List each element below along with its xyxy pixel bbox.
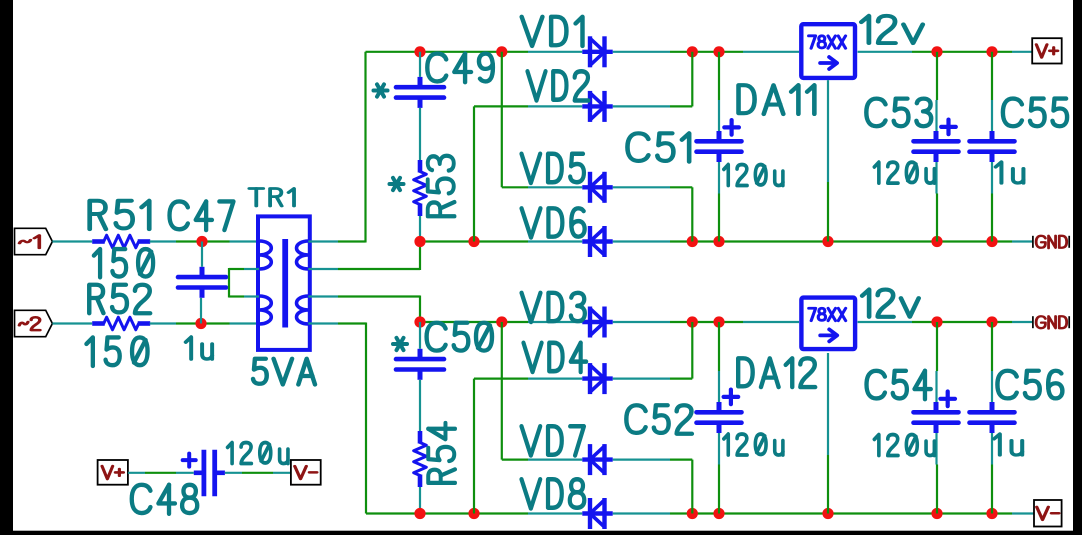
label VD7 — [522, 426, 584, 455]
star mark C49 — [374, 89, 388, 93]
label R53 — [428, 156, 455, 217]
junction dots rail2 — [414, 316, 425, 327]
wire mid rail — [420, 240, 528, 242]
label C51 — [627, 133, 689, 161]
resistor R54 — [418, 431, 423, 444]
label C53 — [866, 99, 931, 127]
wire R51 to TR1 pin1 — [150, 240, 176, 242]
wire C56 leads — [991, 322, 993, 371]
label VD1 — [522, 17, 583, 46]
port V- of C48 — [291, 460, 321, 485]
junction dots mid rail — [414, 236, 425, 247]
diode VD6 — [582, 239, 612, 243]
polarity mark C52 — [724, 395, 739, 399]
wire VD5 branch — [501, 52, 503, 188]
capacitor C53 — [914, 139, 959, 144]
port GND right upper — [1032, 236, 1034, 248]
diode VD1 — [582, 50, 612, 54]
value 150 of R52 — [86, 337, 147, 366]
label C50 — [427, 323, 492, 351]
wire TR1 pin4 to top rail — [308, 240, 338, 242]
value 1u of C55 — [996, 162, 1024, 183]
value 1u of C47 — [186, 337, 212, 359]
label DA11 — [739, 85, 815, 114]
diode VD4 — [582, 376, 612, 380]
label R51 — [90, 201, 150, 229]
wire C54 leads — [936, 322, 938, 371]
label 12v top — [861, 16, 922, 43]
label 12v bottom — [862, 290, 919, 317]
wire TR1 pin7 to bottom rail — [308, 322, 338, 324]
port ~1 — [15, 228, 53, 254]
label C54 — [867, 371, 931, 399]
transformer TR1 — [258, 216, 310, 350]
label R54 — [428, 423, 455, 483]
label R52 — [89, 285, 150, 313]
wire ~2 to R52 — [52, 322, 92, 324]
label VD8 — [522, 479, 585, 508]
wire DA11 ground pin — [827, 80, 829, 182]
polarity mark C48 — [183, 458, 196, 462]
wire C49-R53 chain — [419, 52, 421, 77]
value 120u of C52 — [724, 434, 783, 455]
resistor R51 — [92, 239, 105, 244]
wire TR1 pin5 to node R53 — [308, 268, 338, 270]
junction dots bottom rail — [414, 508, 425, 519]
wire VD4 branch — [474, 378, 528, 380]
capacitor C49 — [396, 85, 444, 90]
label VD5 — [522, 154, 584, 183]
wire VD2 branch — [474, 105, 528, 107]
capacitor C47 — [178, 275, 226, 280]
wire R52 to TR1 pin2 — [150, 322, 176, 324]
label VD6 — [522, 208, 585, 237]
diode VD8 — [582, 511, 612, 515]
label C56 — [997, 371, 1062, 399]
diode VD3 — [582, 320, 612, 324]
value 150 of R51 — [94, 249, 153, 277]
label C47 — [170, 201, 234, 230]
label VD2 — [527, 71, 588, 100]
wire C51 leads — [718, 52, 720, 100]
border frame — [0, 0, 13, 535]
junction node A (C47 top) — [196, 236, 207, 247]
value 1u of C56 — [994, 434, 1022, 455]
label DA12 — [738, 358, 815, 387]
capacitor C48 — [194, 470, 202, 475]
wire bottom rail — [366, 512, 528, 514]
star mark C50 — [393, 342, 407, 346]
junction node B (C47 bottom) — [195, 318, 206, 329]
capacitor C56 — [970, 410, 1015, 415]
polarity mark C54 — [940, 397, 955, 401]
wire C52 leads — [718, 322, 720, 371]
wire ~1 to R51 — [52, 240, 92, 242]
value 120u of C51 — [724, 165, 783, 186]
capacitor C50 — [396, 357, 444, 362]
wire TR1 pins 2-3 tie — [244, 268, 259, 270]
label C55 — [1003, 99, 1067, 127]
port GND right lower — [1032, 316, 1034, 328]
wire C53 leads — [936, 52, 938, 100]
wire C47 leads — [201, 242, 203, 267]
port ~2 — [15, 310, 53, 336]
value 120u of C54 — [874, 435, 934, 456]
wire V+ to C48 — [128, 472, 145, 474]
wire rail2 — [420, 321, 528, 323]
label TR1 — [249, 188, 294, 206]
label C52 — [626, 405, 692, 433]
capacitor C54 — [914, 410, 959, 415]
wire TR1 pin6 to node R54 — [308, 295, 338, 297]
label VD4 — [523, 343, 586, 372]
polarity mark C51 — [724, 125, 739, 129]
capacitor C51 — [697, 139, 742, 144]
wire C50-R54 chain — [419, 322, 421, 349]
label VD3 — [522, 293, 585, 322]
port V+ of C48 — [98, 460, 128, 485]
resistor R53 — [418, 160, 423, 173]
wire C55 leads — [991, 52, 993, 100]
junction dots top rail — [414, 46, 425, 57]
capacitor C55 — [970, 139, 1015, 144]
polarity mark C53 — [941, 125, 956, 129]
regulator U DA12 78XX box — [801, 298, 855, 350]
wire C48 to V- — [225, 472, 242, 474]
value 5VA of TR1 — [253, 359, 315, 385]
capacitor C52 — [697, 410, 742, 415]
regulator U DA11 78XX box — [801, 24, 855, 78]
diode VD5 — [582, 185, 612, 189]
diode VD7 — [582, 457, 612, 461]
label C49 — [427, 54, 493, 83]
value 120u of C53 — [874, 162, 934, 183]
port V- right — [1034, 500, 1062, 527]
wire VD7 branch — [501, 322, 503, 460]
diode VD2 — [582, 104, 612, 108]
label C48 — [132, 485, 197, 514]
value 120u of C48 — [228, 443, 288, 464]
star mark R53 — [390, 182, 404, 186]
resistor R52 — [92, 321, 105, 326]
wire top rail — [366, 51, 529, 53]
wire DA12 ground pin — [827, 353, 829, 455]
port V+ right — [1032, 38, 1062, 63]
